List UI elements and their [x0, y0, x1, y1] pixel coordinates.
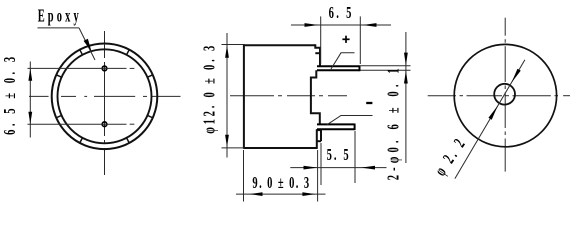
- arrow right-pointing 5.5: [304, 166, 318, 170]
- arrow left-pointing 6.5: [363, 23, 377, 27]
- dimension line 6.5±0.3 (left view): [29, 62, 31, 138]
- dimension line vertical phi0.6: [405, 32, 407, 163]
- boss1 rung: [315, 52, 320, 54]
- arrow down: [28, 112, 32, 125]
- boss2 below pin2: [316, 129, 318, 149]
- svg-text:Epoxy: Epoxy: [38, 7, 79, 27]
- leader polyline on pin1: [331, 53, 355, 69]
- node centerline vertical (left view): [104, 31, 106, 175]
- node centerline horizontal (left view): [29, 95, 181, 97]
- centerline horizontal (right view): [428, 95, 570, 97]
- arrow left-pointing 5.5: [361, 166, 375, 170]
- extension line through top hole: [28, 67, 127, 69]
- pin hole bottom (left view): [102, 122, 107, 127]
- right edge upper: [315, 44, 320, 66]
- arrow up phi0.6: [404, 71, 408, 84]
- inner case circle (left view): [58, 49, 152, 143]
- arrow up: [28, 68, 32, 81]
- dimension line 6.5: [291, 24, 391, 26]
- extension line through bottom hole: [28, 123, 127, 125]
- dimension 6.5 extension right: [359, 16, 361, 64]
- pin 2 (negative lead): [317, 124, 355, 131]
- outer case circle (left view): [52, 44, 158, 150]
- svg-text:2-φ0. 6 ± 0. 1: 2-φ0. 6 ± 0. 1: [384, 68, 403, 180]
- minus polarity mark: [366, 102, 372, 104]
- arrow down phi0.6: [404, 53, 408, 66]
- svg-text:9. 0 ± 0. 3: 9. 0 ± 0. 3: [252, 174, 309, 193]
- dimension 9.0±0.3 extension left: [243, 150, 245, 202]
- dim line: [226, 33, 228, 158]
- leader line Epoxy: [79, 28, 95, 60]
- extension lines from pin1 tip: [361, 65, 411, 67]
- dimension 9.0±0.3 extension right: [317, 150, 319, 202]
- sound hole circle phi2.2: [494, 84, 515, 105]
- ring crimp tick marks: [56, 49, 153, 143]
- extension bottom: [222, 147, 245, 149]
- dimension 5.5 extension left: [320, 143, 322, 185]
- right edge below pin1: [311, 70, 320, 124]
- centerline vertical (right view): [504, 18, 506, 172]
- arrow right-pointing 6.5: [305, 23, 319, 27]
- arrow upper phi2.2: [510, 69, 521, 84]
- pin hole top (left view): [102, 66, 107, 71]
- bottom edge: [244, 147, 318, 149]
- arrow down phi12: [225, 135, 229, 148]
- dimension line 9.0±0.3: [236, 193, 326, 195]
- body centerline (side view): [230, 95, 347, 97]
- leader arrow Epoxy: [84, 39, 94, 53]
- arrow up phi12: [225, 45, 229, 58]
- arrow right 9.0: [302, 192, 315, 196]
- dimension line 5.5: [290, 167, 386, 169]
- body outline (side view): [244, 44, 321, 149]
- dimension 6.5 extension left: [320, 16, 322, 64]
- leader underline for Epoxy: [38, 27, 80, 29]
- top edge: [244, 44, 315, 46]
- plus polarity mark: [342, 36, 349, 43]
- pin 1 (positive lead): [317, 65, 360, 71]
- arrow left 9.0: [250, 192, 263, 196]
- case circle (right view): [454, 44, 556, 146]
- leader polyline on pin2: [327, 116, 373, 125]
- diagonal dimension line phi2.2: [455, 60, 525, 179]
- dimension 5.5 extension right: [354, 131, 356, 183]
- arrow lower phi2.2: [488, 105, 499, 120]
- extension top: [222, 44, 245, 46]
- left edge: [243, 44, 245, 149]
